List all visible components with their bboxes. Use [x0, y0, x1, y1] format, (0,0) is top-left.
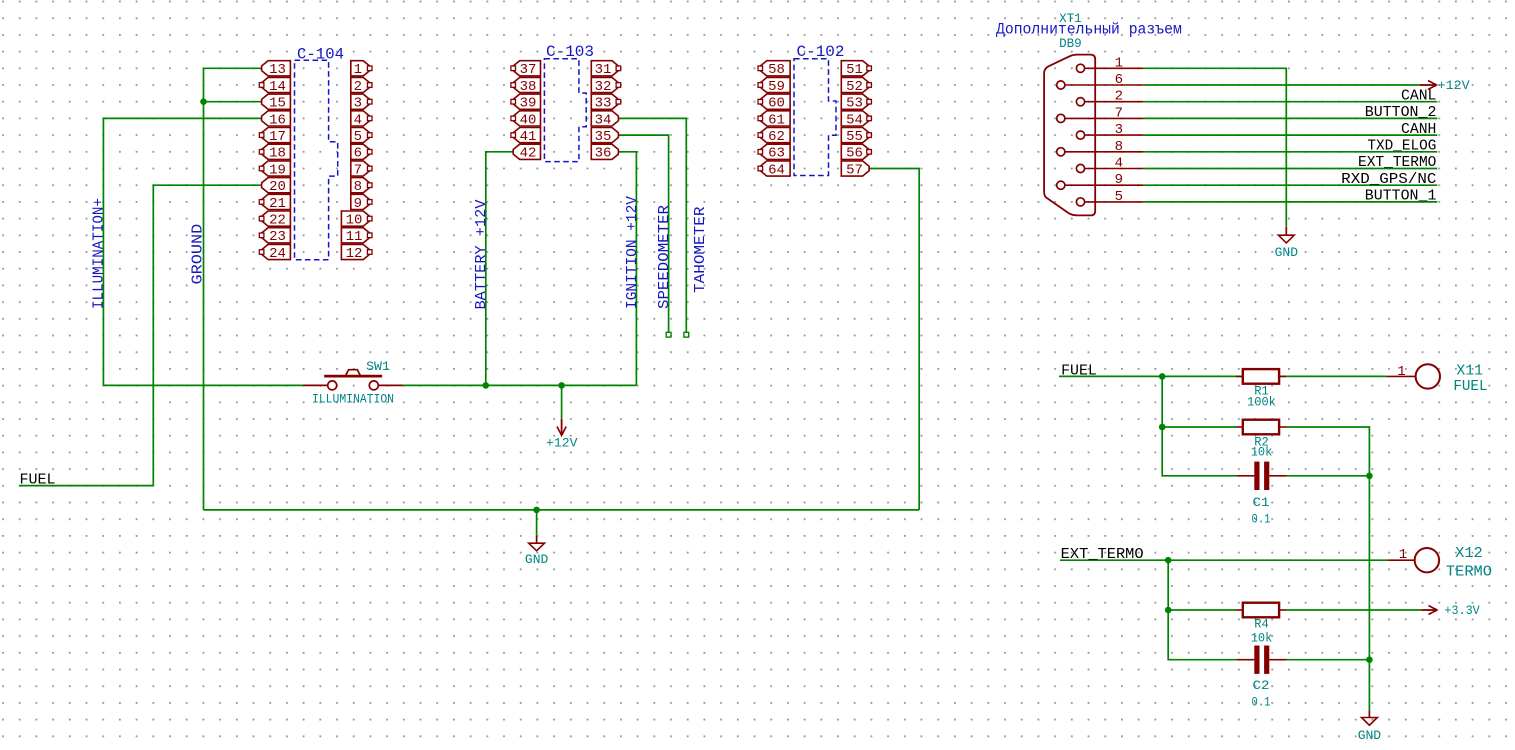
svg-text:60: 60	[768, 96, 785, 112]
pin 39	[511, 94, 541, 112]
wire GROUND rail	[204, 509, 920, 511]
svg-text:13: 13	[269, 62, 286, 78]
wire C1 out	[1287, 475, 1370, 477]
svg-text:X11: X11	[1456, 363, 1483, 380]
svg-text:34: 34	[595, 112, 612, 128]
svg-text:BUTTON_2: BUTTON_2	[1365, 104, 1437, 121]
svg-text:41: 41	[520, 129, 537, 145]
pin 36	[591, 144, 618, 162]
power +12V (right arrow)	[1420, 78, 1470, 93]
wire net BUTTON_2	[1143, 117, 1437, 119]
pin 61	[758, 111, 790, 129]
svg-text:17: 17	[269, 129, 286, 145]
pin 55	[841, 128, 871, 146]
pin 53	[841, 94, 871, 112]
pin 4	[351, 111, 372, 129]
pin 17	[259, 128, 290, 146]
pin 12	[341, 244, 372, 262]
svg-text:38: 38	[520, 79, 537, 95]
svg-text:31: 31	[595, 62, 612, 78]
wire DB9 pin6 +12V	[1143, 84, 1419, 86]
svg-text:8: 8	[1115, 139, 1123, 155]
pin 56	[841, 144, 871, 162]
svg-text:61: 61	[768, 112, 785, 128]
connector XT1 DB9 body	[1044, 55, 1095, 216]
svg-text:EXT_TERMO: EXT_TERMO	[1358, 154, 1436, 171]
svg-text:20: 20	[269, 179, 286, 195]
pin 38	[511, 77, 541, 95]
wire C2 out	[1287, 659, 1370, 661]
wire down to C2	[1168, 610, 1237, 660]
svg-text:15: 15	[269, 96, 286, 112]
svg-text:TXD_ELOG: TXD_ELOG	[1367, 138, 1436, 155]
svg-text:32: 32	[595, 79, 612, 95]
connector C-102 outline	[794, 59, 836, 176]
svg-text:SPEEDOMETER: SPEEDOMETER	[656, 205, 673, 309]
connector C-103 outline	[544, 59, 586, 162]
junction GND drop	[533, 507, 540, 514]
svg-text:39: 39	[520, 96, 537, 112]
svg-text:3: 3	[1115, 122, 1123, 138]
wire SPEEDOMETER	[618, 135, 668, 332]
svg-text:7: 7	[354, 162, 362, 178]
svg-text:9: 9	[354, 196, 362, 212]
capacitor C1	[1237, 462, 1287, 490]
svg-text:18: 18	[269, 146, 286, 162]
pin 40	[511, 111, 541, 129]
svg-text:Дополнительный разъем: Дополнительный разъем	[996, 21, 1182, 39]
svg-text:5: 5	[1115, 189, 1123, 205]
svg-text:16: 16	[269, 112, 286, 128]
svg-text:GROUND: GROUND	[190, 224, 207, 285]
svg-text:14: 14	[269, 79, 286, 95]
svg-text:+12V: +12V	[546, 436, 578, 451]
svg-text:52: 52	[846, 79, 863, 95]
svg-text:EXT_TERMO: EXT_TERMO	[1061, 546, 1144, 563]
svg-text:19: 19	[269, 162, 286, 178]
svg-text:9: 9	[1115, 172, 1123, 188]
connector X12	[1388, 548, 1440, 572]
svg-text:62: 62	[768, 129, 785, 145]
svg-text:ILLUMINATION+: ILLUMINATION+	[91, 198, 108, 309]
svg-text:10k: 10k	[1251, 630, 1273, 645]
pin 63	[758, 144, 790, 162]
svg-text:33: 33	[595, 96, 612, 112]
connector X11	[1386, 364, 1440, 388]
svg-text:CANL: CANL	[1401, 87, 1436, 104]
pin 15	[262, 94, 291, 112]
DB9 pin 2	[1076, 89, 1143, 106]
junction C2/GND net	[1366, 656, 1373, 663]
svg-text:8: 8	[354, 179, 362, 195]
svg-text:C2: C2	[1253, 678, 1270, 693]
svg-text:0.1: 0.1	[1252, 695, 1271, 710]
pin 37	[511, 61, 541, 78]
svg-text:1: 1	[1399, 547, 1407, 563]
pin 57	[841, 161, 869, 179]
pin 64	[758, 161, 790, 179]
pin 51	[841, 61, 871, 78]
wire down to C1	[1162, 427, 1237, 476]
svg-text:4: 4	[354, 112, 362, 128]
svg-text:36: 36	[595, 146, 612, 162]
resistor R2	[1236, 420, 1286, 435]
svg-text:TAHOMETER: TAHOMETER	[692, 207, 709, 294]
svg-text:1: 1	[1397, 364, 1405, 380]
pin 3	[351, 94, 372, 112]
power +12V (down arrow)	[546, 419, 578, 451]
svg-text:BATTERY +12V: BATTERY +12V	[473, 200, 490, 310]
wire IGNITION +12V	[618, 152, 636, 386]
svg-text:SW1: SW1	[366, 359, 390, 374]
wire GROUND from pin13	[204, 68, 262, 510]
pin 6	[351, 144, 372, 162]
svg-text:6: 6	[1115, 72, 1123, 88]
svg-text:54: 54	[846, 112, 863, 128]
svg-text:X12: X12	[1455, 545, 1483, 562]
svg-text:FUEL: FUEL	[20, 471, 56, 488]
svg-text:RXD_GPS/NC: RXD_GPS/NC	[1341, 171, 1436, 188]
svg-text:59: 59	[768, 79, 785, 95]
junction R4 tap	[1165, 607, 1172, 614]
svg-text:+3.3V: +3.3V	[1444, 603, 1479, 618]
wire GND drop	[536, 510, 538, 536]
resistor R1	[1236, 369, 1286, 384]
pin 62	[758, 128, 790, 146]
wire R4 to +3.3V	[1286, 609, 1421, 611]
wire FUEL from pin20	[153, 185, 261, 485]
pin 52	[841, 77, 871, 95]
svg-text:FUEL: FUEL	[1061, 363, 1097, 380]
pin 58	[758, 61, 790, 78]
wire C-102 pin57 to GROUND rail	[869, 169, 919, 510]
wire TAHOMETER	[618, 118, 686, 332]
wire +12V drop	[561, 385, 563, 419]
svg-text:21: 21	[269, 196, 286, 212]
junction R2 tap	[1159, 424, 1166, 431]
svg-text:DB9: DB9	[1059, 36, 1082, 51]
pin 60	[758, 94, 790, 112]
svg-text:1: 1	[354, 62, 362, 78]
svg-text:24: 24	[269, 246, 286, 262]
svg-text:40: 40	[520, 112, 537, 128]
svg-text:3: 3	[354, 96, 362, 112]
svg-text:64: 64	[768, 162, 785, 178]
svg-text:23: 23	[269, 229, 286, 245]
svg-text:10k: 10k	[1251, 444, 1273, 459]
pin 5	[351, 128, 372, 146]
svg-text:63: 63	[768, 146, 785, 162]
junction C1/R2 net	[1366, 473, 1373, 480]
svg-text:0.1: 0.1	[1252, 512, 1271, 527]
wire EXT_TERMO row	[1060, 559, 1388, 561]
svg-text:BUTTON_1: BUTTON_1	[1365, 188, 1437, 205]
svg-text:58: 58	[768, 62, 785, 78]
pin 16	[262, 111, 291, 129]
svg-text:ILLUMINATION: ILLUMINATION	[312, 392, 394, 407]
power +3.3V (right arrow)	[1421, 603, 1479, 618]
pin 31	[591, 61, 620, 78]
wire FUEL to R2	[1162, 376, 1236, 427]
wire switch row right	[403, 384, 637, 386]
resistor R4	[1236, 603, 1286, 618]
DB9 pin 4	[1076, 156, 1143, 173]
svg-text:4: 4	[1115, 156, 1123, 172]
wire net CANH	[1143, 134, 1437, 136]
wire switch row left	[103, 384, 303, 386]
DB9 pin 6	[1057, 72, 1144, 89]
wire FUEL row right	[1059, 375, 1386, 377]
DB9 pin 8	[1057, 139, 1144, 156]
pin 13	[262, 61, 291, 78]
pin 22	[259, 211, 290, 229]
pin 7	[351, 161, 372, 179]
svg-text:57: 57	[846, 162, 863, 178]
svg-text:C-104: C-104	[297, 45, 344, 63]
DB9 pin 1	[1076, 55, 1143, 72]
svg-text:C-102: C-102	[797, 43, 845, 61]
open end TAHOMETER	[684, 332, 689, 337]
svg-text:56: 56	[846, 146, 863, 162]
wire net BUTTON_1	[1143, 201, 1437, 203]
pin 14	[259, 77, 290, 95]
wire BATTERY +12V	[486, 152, 513, 386]
junction +12V drop	[558, 382, 565, 389]
pin 21	[259, 194, 290, 212]
pin 59	[758, 77, 790, 95]
wire net TXD_ELOG	[1143, 151, 1437, 153]
ground GND (bottom right)	[1358, 710, 1382, 743]
svg-text:1: 1	[1115, 55, 1123, 71]
junction GROUND x pin15	[200, 98, 207, 105]
wire net CANL	[1143, 101, 1437, 103]
pin 10	[341, 211, 372, 229]
open end SPEEDOMETER	[666, 332, 671, 337]
pin 23	[259, 228, 290, 246]
wire FUEL label row	[19, 485, 153, 487]
svg-text:+12V: +12V	[1438, 78, 1470, 93]
pin 11	[341, 228, 372, 246]
wire net RXD_GPS/NC	[1143, 184, 1437, 186]
svg-text:55: 55	[846, 129, 863, 145]
DB9 pin 7	[1057, 105, 1144, 122]
svg-text:6: 6	[354, 146, 362, 162]
wire R2 out	[1286, 427, 1369, 710]
svg-text:2: 2	[354, 79, 362, 95]
svg-text:7: 7	[1115, 105, 1123, 121]
pin 9	[351, 194, 372, 212]
pin 20	[262, 178, 291, 196]
svg-text:2: 2	[1115, 89, 1123, 105]
junction EXT_TERMO tap	[1165, 557, 1172, 564]
wire ILLUMINATION+ from pin16	[103, 118, 261, 385]
DB9 pin 9	[1057, 172, 1144, 189]
capacitor C2	[1237, 646, 1287, 674]
pin 33	[591, 94, 620, 112]
pin 18	[259, 144, 290, 162]
svg-text:TERMO: TERMO	[1446, 563, 1492, 580]
switch SW1	[303, 370, 403, 390]
DB9 pin 3	[1076, 122, 1143, 139]
svg-text:10: 10	[346, 213, 363, 229]
svg-text:CANH: CANH	[1401, 121, 1436, 138]
svg-text:51: 51	[846, 62, 863, 78]
pin 34	[591, 111, 618, 129]
svg-text:5: 5	[354, 129, 362, 145]
pin 35	[591, 128, 618, 146]
pin 42	[513, 144, 540, 162]
pin 1	[351, 61, 372, 78]
svg-text:GND: GND	[1275, 245, 1299, 260]
pin 41	[511, 128, 541, 146]
svg-text:C1: C1	[1253, 495, 1270, 510]
svg-text:35: 35	[595, 129, 612, 145]
connector C-104 outline	[295, 60, 338, 260]
wire EXT_TERMO to R4	[1168, 560, 1236, 610]
pin 24	[259, 244, 290, 262]
svg-text:12: 12	[346, 246, 363, 262]
svg-text:FUEL: FUEL	[1453, 378, 1487, 395]
svg-text:IGNITION +12V: IGNITION +12V	[624, 196, 641, 309]
junction FUEL/R1	[1159, 373, 1166, 380]
svg-text:R4: R4	[1254, 617, 1269, 632]
svg-text:37: 37	[520, 62, 537, 78]
svg-text:100k: 100k	[1247, 395, 1276, 410]
svg-text:GND: GND	[525, 552, 549, 567]
pin 54	[841, 111, 871, 129]
wire pin15 to GROUND	[204, 101, 262, 103]
DB9 pin 5	[1076, 189, 1143, 206]
pin 8	[351, 178, 372, 196]
svg-text:42: 42	[520, 146, 537, 162]
pin 2	[351, 77, 372, 95]
wire net EXT_TERMO	[1143, 168, 1437, 170]
ground GND (below DB9)	[1275, 227, 1299, 260]
pin 32	[591, 77, 620, 95]
svg-text:11: 11	[346, 229, 363, 245]
svg-text:53: 53	[846, 96, 863, 112]
pin 19	[259, 161, 290, 179]
svg-text:22: 22	[269, 213, 286, 229]
ground GND (bottom middle)	[525, 536, 549, 568]
wire DB9 pin1 to GND	[1143, 68, 1286, 227]
svg-text:GND: GND	[1358, 728, 1382, 743]
junction BATTERY x switch row	[483, 382, 490, 389]
svg-text:C-103: C-103	[546, 43, 594, 61]
